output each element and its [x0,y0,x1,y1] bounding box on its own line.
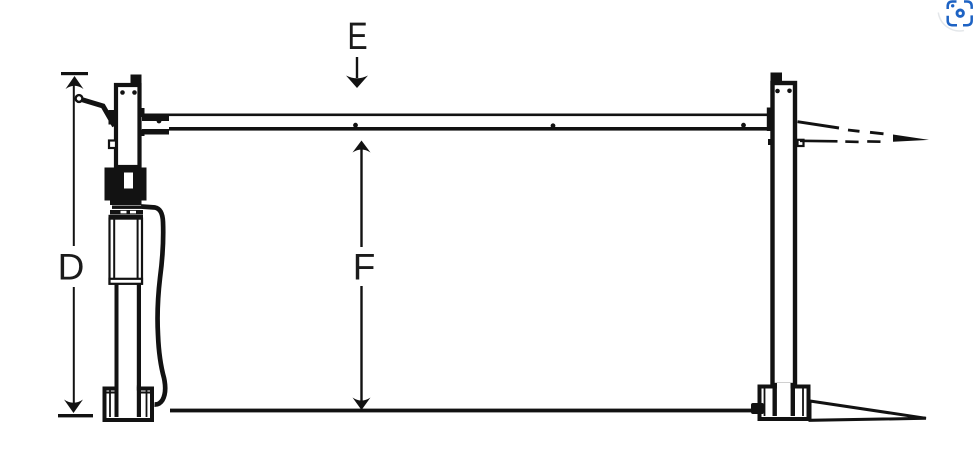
right side bracket [798,140,804,146]
hydraulic hose [141,207,165,405]
cylinder inner wall left [113,219,115,284]
right base leg left [773,383,777,416]
floor ramp wedge [810,401,926,420]
right carriage lower tab [768,139,775,145]
left leg right [137,284,141,388]
left base leg shadow right [137,385,141,417]
lens button circle [938,0,976,31]
motor block [105,168,147,201]
lens icon frame bottom-left [948,16,957,25]
right base leg channel [777,383,791,391]
beam left bracket upper band [142,115,169,121]
left post body [116,85,140,167]
lens icon frame top-left [948,2,957,10]
svg-text:F: F [353,247,376,288]
right carriage bar [767,108,774,132]
cylinder top band [109,215,144,219]
left carriage tab upper right [139,108,145,117]
runway beam top line [141,114,771,117]
raised ramp tip [893,135,929,142]
anchor block at ground [751,403,764,414]
left base rim left [103,392,115,394]
pivot circle on latch arm [76,95,83,102]
left base inner wall left [109,390,111,417]
arrow F upper shaft [360,148,362,247]
beam bolt 1 [353,123,358,128]
left base leg channel [119,385,137,394]
left carriage tab lower right [139,130,145,137]
dimension D bottom arrowhead [64,400,83,414]
raised ramp upper dash 2 [870,132,884,134]
lens icon frame bottom-right [963,15,972,25]
left base plate [105,389,153,421]
collar ring 2 [110,210,143,214]
left base leg shadow left [115,385,119,417]
dimension D bottom tick [58,414,93,417]
collar ring gap2 [130,211,136,214]
left base rim right [140,392,153,394]
bracket bolt [157,119,162,124]
lens icon dot [951,4,954,7]
beam left bracket lower band [142,129,169,135]
right post bolt 1 [775,89,780,94]
ground line [170,409,755,413]
beam bolt 3 [741,123,746,128]
lens icon center ring [957,10,963,16]
left post top cap [131,75,142,85]
left base inner wall right [146,390,148,417]
left post bolt 2 [132,90,137,95]
cylinder bottom band [110,279,143,284]
arrow F bottom head [353,398,371,411]
runway beam bottom line [169,127,771,131]
left post side tab upper [109,110,116,125]
dimension D top arrowhead [66,76,84,89]
raised ramp upper line solid [798,122,840,128]
right base leg right [791,383,795,416]
dimension D top tick [61,72,88,75]
right post body [773,83,796,385]
raised ramp lower line solid [800,140,838,143]
dimension D line lower segment [73,287,75,407]
lens icon frame top-right [964,2,972,9]
left leg left [115,284,119,388]
pump flange [110,201,142,206]
arrow E head [346,76,368,89]
arrow F lower shaft [360,286,362,402]
right base plate [760,387,809,420]
collar ring gap1 [121,211,127,214]
beam bolt 2 [551,123,556,128]
motor slot [124,173,133,189]
svg-text:D: D [58,247,85,288]
svg-text:E: E [347,16,367,58]
cylinder body [110,219,143,284]
left post bolt 1 [120,90,125,95]
right base inner wall left [764,388,766,416]
latch release arm [82,100,115,127]
left post side square lower [109,141,116,149]
arrow F top head [353,141,371,153]
arrow E shaft [356,57,358,78]
collar ring 1 [112,206,141,209]
dimension D line upper segment [73,84,75,246]
raised ramp lower dash 1 [845,140,858,143]
right base inner wall right [802,388,804,416]
right post top cap [771,73,783,84]
raised ramp lower dash 2 [867,140,880,143]
right post bolt 2 [787,89,792,94]
cylinder inner wall right [137,219,139,284]
lens button shadow arc [938,13,964,31]
raised ramp upper dash 1 [848,130,860,131]
